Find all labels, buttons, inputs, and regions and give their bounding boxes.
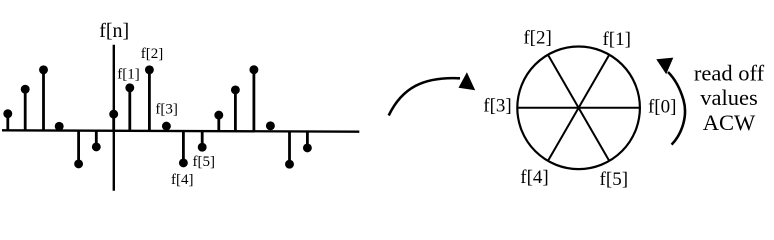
svg-text:f[1]: f[1] — [602, 29, 630, 50]
spoke 0-180 degrees — [517, 107, 640, 109]
svg-text:values: values — [700, 85, 757, 110]
svg-text:f[0]: f[0] — [648, 96, 676, 117]
stem n=5 — [198, 131, 207, 152]
annotation read off values ACW — [694, 60, 765, 135]
svg-text:f[n]: f[n] — [99, 20, 129, 42]
stem n=-1 — [92, 131, 101, 152]
stem n=-2 — [74, 131, 83, 169]
svg-text:f[2]: f[2] — [141, 46, 164, 62]
stem n=-3 — [55, 122, 64, 131]
svg-text:f[2]: f[2] — [523, 27, 551, 48]
stem n=-6 — [3, 109, 12, 130]
spoke 120-300 degrees — [548, 55, 609, 161]
svg-text:f[4]: f[4] — [520, 167, 548, 188]
svg-text:f[4]: f[4] — [171, 172, 194, 188]
stem n=2 — [145, 65, 154, 130]
stem n=3 — [162, 122, 171, 131]
stem n=9 — [266, 121, 275, 130]
svg-text:f[3]: f[3] — [483, 96, 511, 117]
ACW curved arrow — [656, 58, 685, 145]
stem n=7 — [231, 85, 240, 130]
svg-text:f[5]: f[5] — [600, 169, 628, 190]
vertical f[n]-axis — [113, 45, 115, 191]
spoke 60-240 degrees — [548, 55, 609, 161]
stem n=0 (on y-axis) — [109, 110, 118, 131]
stem n=1 — [125, 83, 134, 130]
stem n=10 — [285, 131, 294, 168]
stem n=8 — [249, 65, 258, 130]
svg-text:ACW: ACW — [703, 110, 756, 135]
horizontal n-axis — [2, 130, 359, 131]
stem n=11 — [303, 131, 312, 152]
svg-text:f[5]: f[5] — [193, 154, 216, 170]
svg-text:read off: read off — [694, 60, 765, 85]
stem n=-5 — [21, 85, 30, 131]
arrow from stem plot to circle — [389, 72, 476, 115]
stem n=4 — [179, 131, 188, 168]
stem n=-4 — [39, 65, 48, 130]
svg-text:f[3]: f[3] — [155, 102, 178, 118]
stem n=6 — [214, 111, 223, 131]
svg-text:f[1]: f[1] — [117, 67, 140, 83]
circle — [517, 47, 640, 170]
